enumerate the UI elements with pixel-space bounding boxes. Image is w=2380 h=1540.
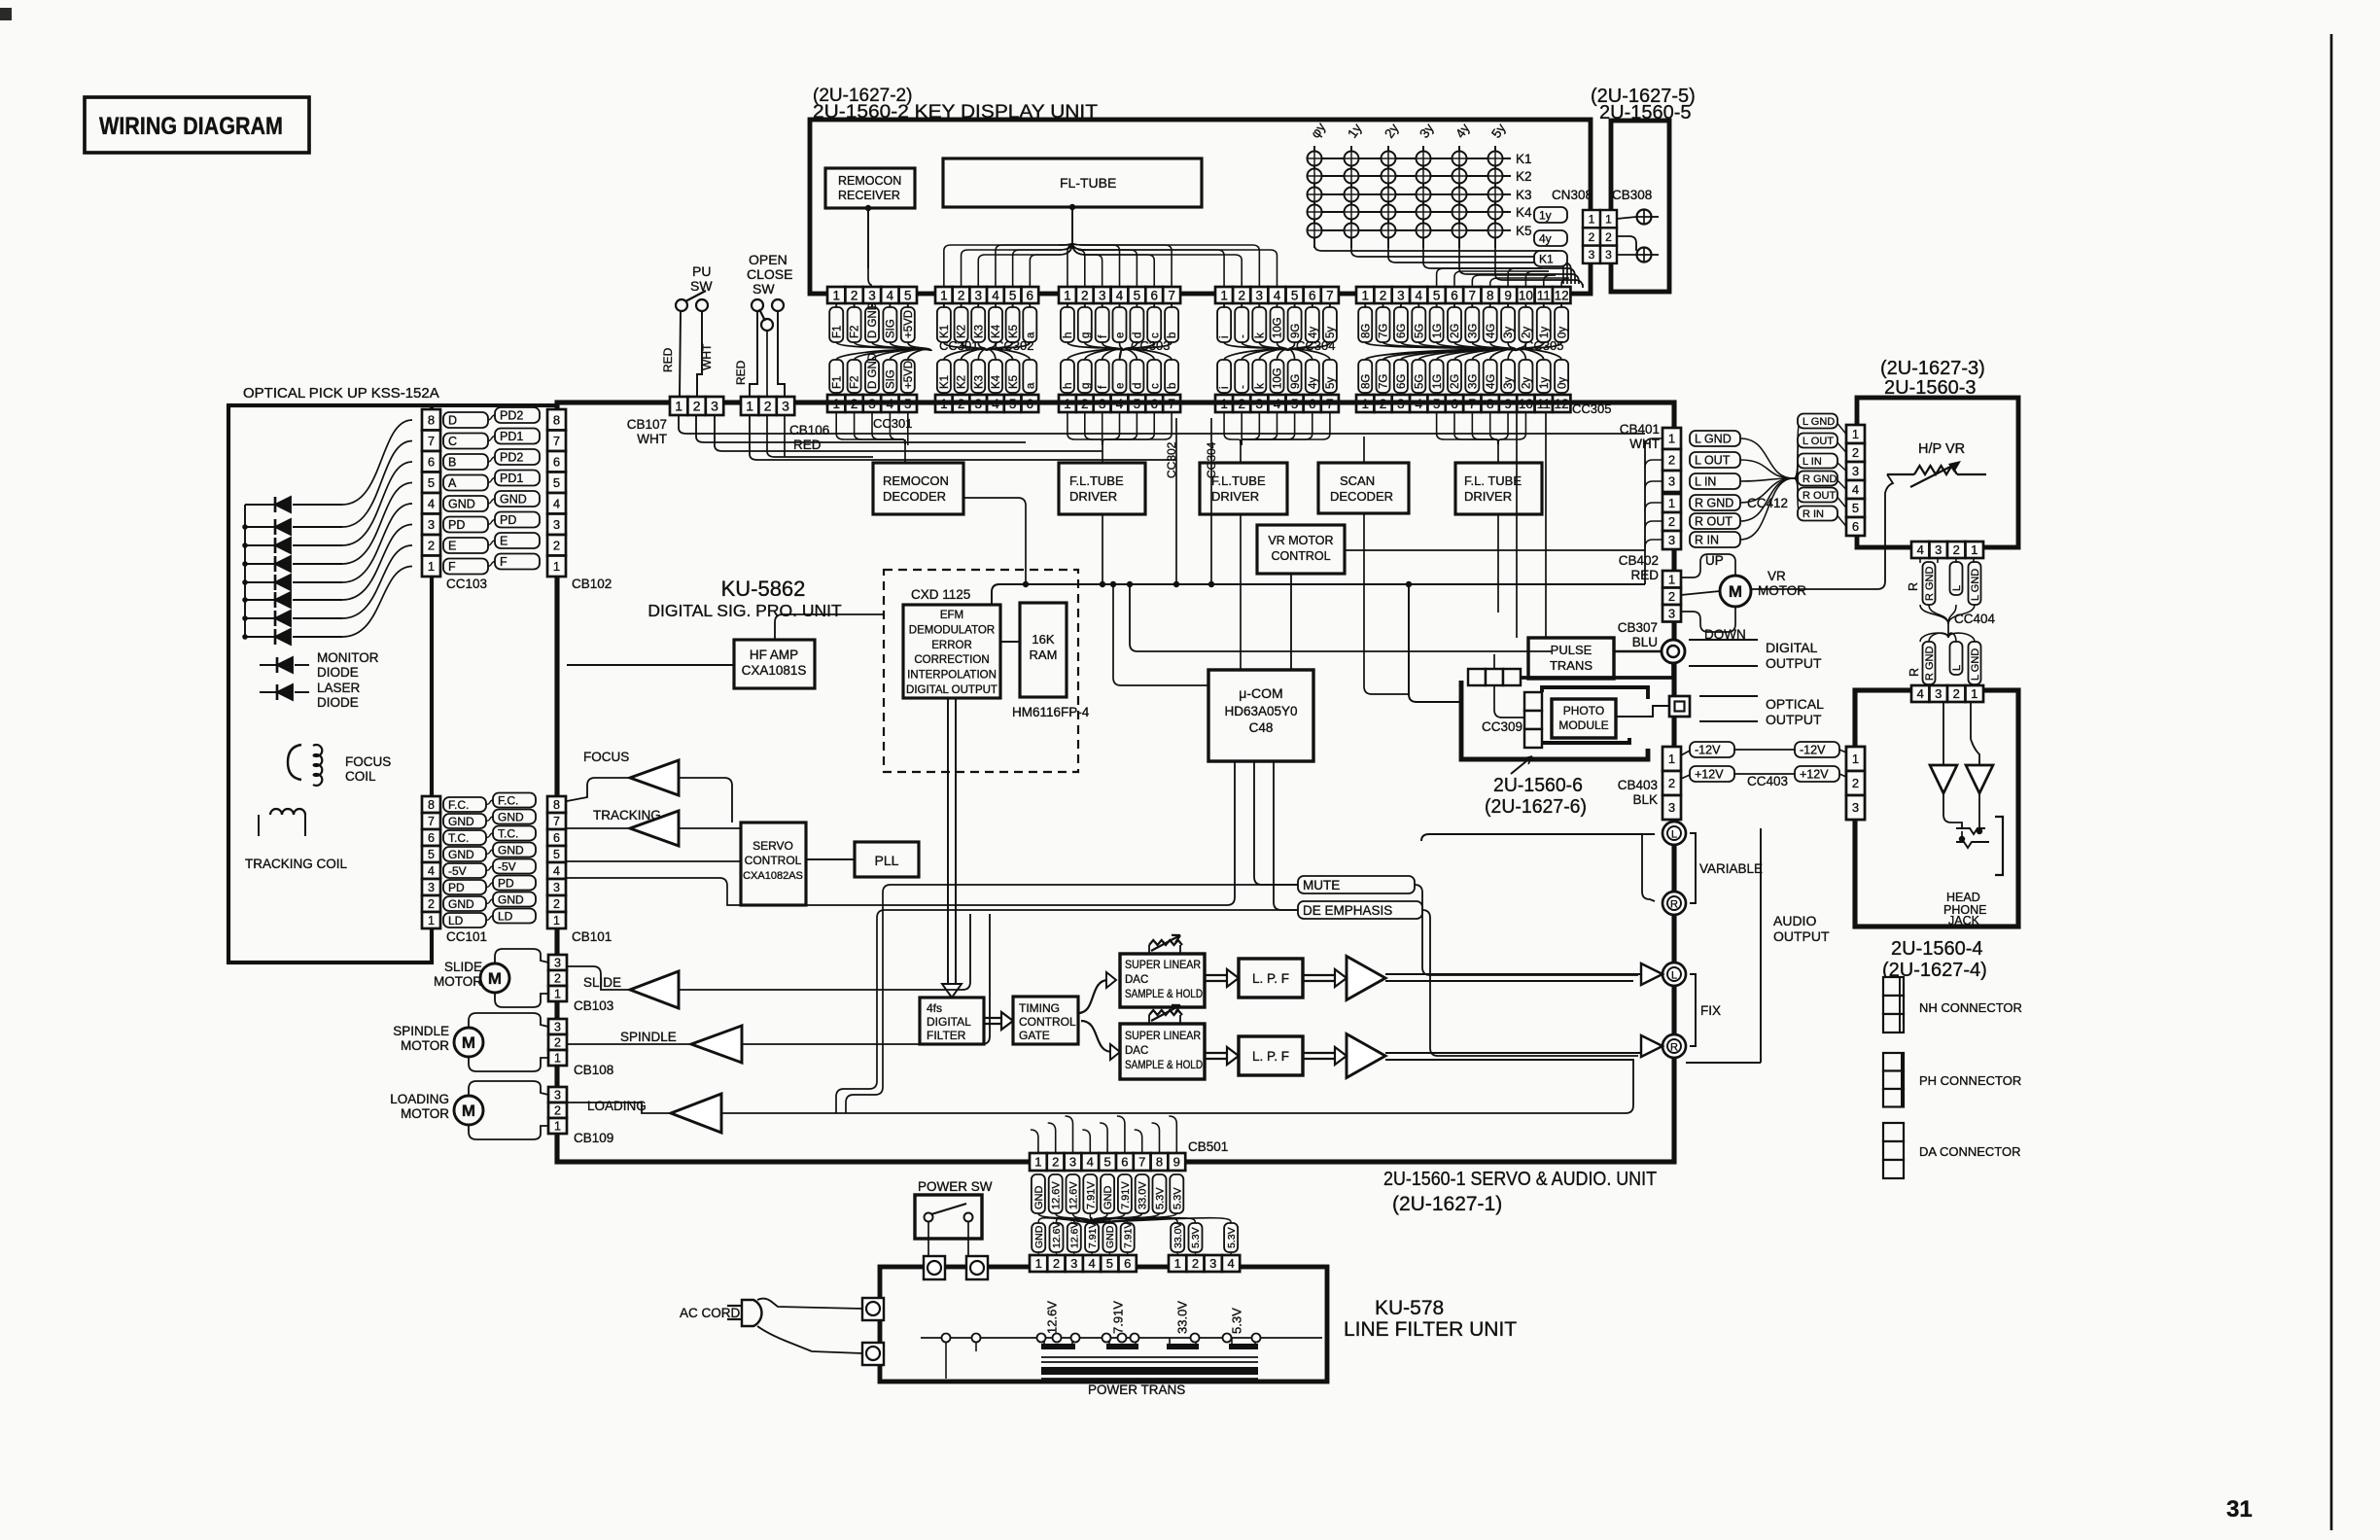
svg-text:2: 2 (1852, 776, 1859, 790)
svg-text:D GND: D GND (867, 353, 879, 389)
VR motor control box (1257, 525, 1345, 574)
wire PU SW to CB107 pin2 (697, 311, 702, 397)
lamp symbol 1 in 2U-1560-5 (1637, 210, 1652, 225)
wire driver3 down (1497, 514, 1499, 612)
connector CC404 lower strip 4321 (1911, 685, 1930, 702)
super linear DAC box top (1120, 954, 1205, 1007)
audio output bracket (1760, 828, 1762, 1063)
hollow arrow LPF to amp bottom (1303, 1052, 1335, 1054)
svg-text:3: 3 (553, 881, 560, 894)
trimmer symbol top DAC (1149, 940, 1182, 945)
svg-text:WHT: WHT (637, 432, 667, 446)
svg-text:7: 7 (1326, 288, 1334, 302)
svg-text:3: 3 (1209, 1256, 1216, 1271)
svg-text:8: 8 (553, 412, 560, 427)
svg-text:R: R (1670, 899, 1678, 911)
svg-text:10: 10 (1519, 288, 1533, 302)
svg-text:e: e (1115, 332, 1127, 338)
svg-text:RED: RED (661, 347, 675, 372)
wire driver2 down to uCOM (1240, 514, 1242, 670)
wire photo module to optical jack (1616, 706, 1669, 717)
svg-text:F1: F1 (831, 376, 843, 389)
scan edge line (2330, 34, 2333, 1530)
svg-text:5: 5 (1291, 288, 1299, 302)
scan decoder box (1318, 463, 1409, 513)
svg-text:(2U-1627-1): (2U-1627-1) (1392, 1193, 1502, 1215)
svg-text:OPTICAL PICK UP KSS-152A: OPTICAL PICK UP KSS-152A (243, 385, 439, 402)
svg-text:2: 2 (1052, 1155, 1059, 1170)
wire tracking amp to CB101 and servo control (567, 827, 630, 829)
wire bundle CC301 row1 to row2 with pin name labels (836, 342, 931, 360)
svg-text:h: h (1063, 332, 1074, 338)
svg-text:1G: 1G (1432, 324, 1444, 338)
svg-text:3: 3 (1935, 686, 1942, 701)
svg-text:4: 4 (1274, 288, 1281, 302)
wire EFM to RAM (1000, 641, 1020, 643)
svg-text:GND: GND (1102, 1186, 1114, 1210)
svg-text:5y: 5y (1325, 327, 1337, 338)
svg-text:GND: GND (448, 815, 474, 828)
wire CB101 to HF AMP (567, 664, 734, 666)
wire branch down to optical module (1409, 584, 1461, 702)
svg-text:3G: 3G (1468, 374, 1480, 389)
connector CB102 pins (547, 409, 566, 431)
amplifier triangle top (1347, 957, 1385, 1000)
svg-text:5G: 5G (1414, 324, 1425, 338)
amplifier triangle bottom (1347, 1034, 1385, 1078)
svg-text:LASER: LASER (317, 681, 361, 695)
svg-text:4: 4 (887, 288, 894, 302)
label 2U-1560-6 with arrow (1511, 756, 1532, 774)
svg-text:3: 3 (1852, 464, 1859, 478)
svg-text:9G: 9G (1290, 324, 1302, 338)
svg-text:SW: SW (752, 281, 775, 297)
svg-text:PHOTO: PHOTO (1563, 704, 1604, 717)
connector CC305 row1 pins (1356, 287, 1374, 303)
svg-text:-5V: -5V (448, 864, 467, 878)
wire amp bottom to fix R (1385, 1052, 1646, 1054)
power inlet contacts on filter box (924, 1256, 945, 1279)
svg-text:2: 2 (554, 1036, 561, 1050)
thick wires photo module loop (1542, 687, 1648, 699)
svg-text:-5V: -5V (498, 859, 516, 873)
wires CC404 strip stubs (1919, 558, 1921, 563)
wires CB402 to VR motor (1681, 554, 1735, 577)
F.L. TUBE DRIVER box 1 (1059, 463, 1145, 514)
key display unit board outline 2U-1560-2 (810, 120, 1591, 294)
svg-text:K2: K2 (957, 375, 968, 389)
svg-text:4: 4 (992, 288, 999, 302)
svg-text:GND: GND (448, 498, 475, 511)
wire fan CC305 to driver3 (1437, 412, 1498, 444)
wires loading motor to CB109 (469, 1081, 548, 1096)
svg-text:4G: 4G (1486, 374, 1497, 389)
svg-text:CB501: CB501 (1188, 1139, 1228, 1154)
connector CC404 upper strip 4321 (1911, 542, 1930, 558)
svg-text:OUTPUT: OUTPUT (1766, 655, 1822, 671)
svg-text:L IN: L IN (1802, 456, 1822, 468)
svg-text:6: 6 (1150, 288, 1158, 302)
svg-text:L. P. F: L. P. F (1252, 1049, 1289, 1064)
svg-text:1y: 1y (1539, 377, 1551, 389)
svg-text:1G: 1G (1432, 374, 1444, 389)
servo and audio unit board outline 2U-1560-1 (557, 402, 1674, 1162)
svg-text:6: 6 (553, 831, 560, 845)
svg-text:8: 8 (553, 798, 560, 812)
svg-text:REMOCON: REMOCON (883, 473, 949, 488)
svg-text:F.C.: F.C. (448, 798, 469, 812)
wires diodes to CC103 (342, 420, 412, 505)
svg-text:2: 2 (764, 399, 772, 414)
svg-text:2: 2 (1852, 445, 1859, 460)
wires CB401 to left bus (1645, 438, 1662, 446)
svg-text:SUPER LINEAR: SUPER LINEAR (1125, 960, 1201, 971)
svg-text:7.91V: 7.91V (1085, 1181, 1097, 1209)
svg-text:10G: 10G (1273, 317, 1284, 338)
svg-text:L GND: L GND (1695, 433, 1732, 446)
svg-text:2: 2 (553, 538, 560, 552)
FL-TUBE box (943, 158, 1202, 207)
svg-text:5.3V: 5.3V (1226, 1227, 1238, 1248)
svg-text:2: 2 (554, 972, 561, 986)
svg-text:CC412: CC412 (1747, 496, 1788, 510)
wire VR motor control right (1346, 549, 1645, 551)
svg-text:4: 4 (553, 496, 560, 510)
wire variable L from left (1421, 834, 1655, 841)
svg-text:2: 2 (1081, 288, 1089, 302)
svg-text:3: 3 (782, 399, 789, 414)
svg-text:12.6V: 12.6V (1068, 1181, 1080, 1209)
wire servo control to PLL (806, 858, 855, 860)
NH connector legend symbol (1883, 977, 1904, 996)
svg-text:K5: K5 (1516, 224, 1532, 238)
optical unit 2U-1560-6 thick outline (1461, 681, 1648, 759)
svg-text:6G: 6G (1396, 374, 1408, 389)
connector CC305 row2 pins (1356, 395, 1374, 412)
svg-text:5: 5 (904, 288, 912, 302)
connector CB501 pins (1030, 1153, 1047, 1171)
svg-text:SLIDE: SLIDE (583, 975, 621, 990)
svg-text:L. P. F: L. P. F (1252, 971, 1289, 986)
svg-text:E: E (448, 540, 456, 553)
svg-text:4y: 4y (1539, 231, 1552, 245)
svg-text:SAMPLE & HOLD: SAMPLE & HOLD (1125, 989, 1203, 1000)
wires slide motor to CB103 (495, 949, 548, 963)
svg-text:K3: K3 (973, 375, 985, 389)
svg-text:3: 3 (553, 517, 560, 532)
wire spindle long run (742, 914, 990, 1044)
svg-text:SERVO: SERVO (752, 839, 793, 853)
connector CB401 R pins (1662, 494, 1681, 512)
photo diode array (244, 505, 246, 637)
svg-text:SPINDLE: SPINDLE (393, 1024, 449, 1038)
connector CC302 row2 pins (935, 395, 953, 412)
svg-text:1: 1 (554, 1052, 561, 1066)
VR motor (1720, 576, 1751, 607)
svg-text:L IN: L IN (1695, 475, 1716, 489)
svg-text:POWER TRANS: POWER TRANS (1088, 1382, 1185, 1397)
wires uCOM left side (1113, 584, 1208, 685)
optical pick up board outline KSS-152A (228, 405, 432, 962)
svg-text:CN308: CN308 (1552, 188, 1592, 202)
svg-text:6: 6 (1852, 519, 1859, 534)
svg-text:3: 3 (554, 1089, 561, 1102)
svg-text:BLK: BLK (1632, 792, 1658, 807)
svg-text:CB106: CB106 (789, 423, 829, 437)
svg-text:2U-1560-2 KEY DISPLAY UNIT: 2U-1560-2 KEY DISPLAY UNIT (813, 102, 1098, 122)
svg-text:1: 1 (1971, 542, 1977, 557)
wire OPEN CLOSE SW to CB106 pin3 (778, 311, 785, 397)
power transformer taps (945, 1343, 947, 1352)
lozenge label 4y (1534, 230, 1567, 246)
micro computer box HD63A05Y0 (1208, 670, 1313, 761)
potentiometer H/P VR (1887, 473, 1914, 475)
svg-text:F.L.TUBE: F.L.TUBE (1211, 473, 1266, 488)
svg-text:K2: K2 (957, 325, 968, 338)
svg-text:D: D (448, 414, 457, 428)
svg-text:-12V: -12V (1695, 744, 1721, 757)
svg-text:R GND: R GND (1802, 473, 1837, 485)
svg-text:FL-TUBE: FL-TUBE (1060, 175, 1116, 191)
svg-text:DAC: DAC (1125, 1045, 1148, 1057)
svg-text:L: L (1951, 585, 1963, 591)
bracket VARIABLE (1690, 833, 1696, 903)
connector CB106 pins (741, 397, 758, 415)
svg-text:FIX: FIX (1700, 1003, 1721, 1018)
svg-text:POWER SW: POWER SW (918, 1179, 993, 1194)
4fs digital filter box (920, 997, 984, 1044)
svg-text:PH CONNECTOR: PH CONNECTOR (1919, 1073, 2021, 1088)
svg-text:INTERPOLATION: INTERPOLATION (907, 670, 997, 682)
svg-text:9: 9 (1504, 288, 1512, 302)
remocon decoder box (873, 463, 963, 514)
svg-text:3: 3 (868, 288, 876, 302)
svg-text:1: 1 (1064, 288, 1071, 302)
svg-text:a: a (1026, 332, 1037, 338)
svg-text:0y: 0y (1557, 327, 1568, 338)
svg-text:1: 1 (1034, 1155, 1041, 1170)
svg-text:d: d (1133, 383, 1144, 389)
svg-text:CB108: CB108 (574, 1063, 613, 1077)
svg-text:1: 1 (1668, 432, 1675, 446)
timing control gate box (1013, 997, 1078, 1044)
svg-text:1: 1 (554, 1120, 561, 1134)
pin labels power unit side (1030, 1255, 1047, 1272)
svg-text:LOADING: LOADING (390, 1092, 449, 1106)
svg-text:3: 3 (1070, 1256, 1077, 1271)
svg-text:2: 2 (553, 897, 560, 911)
svg-text:4: 4 (428, 496, 435, 510)
svg-text:CB103: CB103 (574, 998, 613, 1013)
svg-text:2: 2 (1380, 288, 1387, 302)
spindle amplifier triangle (691, 1026, 742, 1063)
svg-text:3: 3 (1256, 288, 1264, 302)
svg-text:5.3V: 5.3V (1190, 1227, 1202, 1248)
svg-text:M: M (462, 1102, 475, 1120)
svg-text:g: g (1080, 383, 1092, 389)
svg-text:2: 2 (1668, 589, 1675, 604)
bus line right side (1644, 440, 1646, 584)
svg-text:7.91V: 7.91V (1111, 1301, 1126, 1334)
svg-text:2U-1560-4: 2U-1560-4 (1891, 938, 1983, 960)
svg-text:6: 6 (553, 454, 560, 469)
svg-text:CB308: CB308 (1612, 188, 1652, 202)
svg-text:R IN: R IN (1695, 534, 1719, 547)
svg-text:PD: PD (448, 881, 465, 894)
connector CB103 (548, 955, 567, 970)
pin labels CB101 (493, 793, 536, 808)
wire PU SW to CB107 pin1 (680, 311, 681, 397)
svg-text:3: 3 (1099, 288, 1106, 302)
svg-text:MONITOR: MONITOR (317, 650, 379, 665)
svg-text:GND: GND (500, 493, 527, 507)
svg-text:7: 7 (428, 815, 435, 828)
svg-text:33.0V: 33.0V (1172, 1222, 1184, 1248)
svg-text:M: M (1729, 582, 1742, 601)
wire scan decoder down (1364, 513, 1409, 694)
wire slide long run (679, 914, 970, 990)
wire long run EFM top to right edge (992, 584, 1645, 605)
svg-text:g: g (1080, 332, 1092, 338)
svg-text:33.0V: 33.0V (1175, 1301, 1190, 1334)
svg-text:MOTOR: MOTOR (401, 1106, 449, 1121)
hollow arrow EFM to 4fs filter (947, 698, 949, 988)
svg-text:L GND: L GND (1970, 569, 1981, 601)
svg-text:5: 5 (1009, 288, 1017, 302)
wire bundle CC304 row1 to row2 with pin name labels (1224, 342, 1288, 360)
connector CC303 row1 pins (1059, 287, 1076, 303)
pin labels CB102 (495, 407, 540, 423)
svg-text:TRACKING: TRACKING (593, 808, 661, 822)
svg-text:b: b (1167, 383, 1178, 389)
svg-text:+5VD: +5VD (903, 361, 915, 389)
wire to CC309 (1494, 685, 1524, 717)
legend monitor diode (260, 664, 277, 666)
power switch box (915, 1195, 982, 1239)
hollow arrow DAC to LPF bottom (1205, 1052, 1227, 1054)
svg-text:1: 1 (1668, 496, 1675, 510)
connector CC303 row2 pins (1059, 395, 1076, 412)
svg-text:3: 3 (1668, 800, 1675, 815)
svg-text:CB401: CB401 (1620, 422, 1660, 437)
svg-text:MUTE: MUTE (1303, 878, 1340, 892)
PLL box (855, 842, 919, 877)
svg-text:a: a (1026, 382, 1037, 389)
svg-text:MOTOR: MOTOR (434, 974, 482, 989)
tracking coil symbol (270, 809, 282, 815)
wires CC404 merge (1920, 605, 1948, 624)
svg-text:CONTROL: CONTROL (1019, 1015, 1076, 1029)
svg-text:K4: K4 (991, 374, 1002, 389)
svg-text:OPTICAL: OPTICAL (1766, 696, 1824, 712)
svg-text:2U-1560-1 SERVO & AUDIO. UNI: 2U-1560-1 SERVO & AUDIO. UNIT (1383, 1169, 1657, 1190)
svg-text:4: 4 (1088, 1256, 1095, 1271)
svg-text:1y: 1y (1539, 327, 1551, 338)
svg-text:F2: F2 (850, 326, 861, 338)
svg-text:6: 6 (1027, 288, 1034, 302)
wire uCOM bottom left run (807, 761, 1235, 905)
svg-text:3: 3 (554, 1021, 561, 1034)
svg-text:CORRECTION: CORRECTION (914, 654, 989, 666)
svg-text:1: 1 (746, 399, 753, 414)
svg-text:CLOSE: CLOSE (747, 266, 792, 282)
svg-text:SUPER LINEAR: SUPER LINEAR (1125, 1031, 1201, 1042)
pulse trans box (1528, 638, 1614, 679)
focus coil symbol (288, 745, 301, 780)
svg-text:8G: 8G (1360, 324, 1372, 338)
wires CC103 to CB102 (488, 415, 495, 420)
svg-text:8: 8 (1487, 288, 1494, 302)
svg-text:2: 2 (1668, 514, 1675, 529)
svg-text:4: 4 (1917, 542, 1924, 557)
svg-text:2U-1560-5: 2U-1560-5 (1599, 102, 1692, 123)
svg-text:L: L (1671, 829, 1677, 841)
svg-text:4: 4 (1917, 686, 1924, 701)
svg-text:6: 6 (1451, 288, 1458, 302)
svg-text:GND: GND (498, 843, 524, 857)
svg-text:2: 2 (1668, 776, 1675, 790)
svg-text:6: 6 (1124, 1256, 1131, 1271)
wire braid CC305 to key matrix (1437, 268, 1542, 287)
connector CN308 pins (1583, 210, 1600, 227)
wire bundle CC305 row1 to row2 with pin name labels (1365, 342, 1517, 360)
wire CB109 to loading amp (567, 1102, 671, 1113)
svg-text:COIL: COIL (345, 769, 376, 784)
slide amplifier triangle (630, 971, 679, 1008)
svg-text:T.C.: T.C. (498, 826, 518, 840)
wire mute to fix L line (1415, 885, 1638, 975)
wires CC404 to amps (1942, 702, 1944, 765)
wire amp top to fix L (1385, 973, 1646, 975)
svg-text:4: 4 (428, 864, 435, 878)
svg-text:3y: 3y (1503, 327, 1515, 338)
svg-text:R GND: R GND (1695, 497, 1733, 510)
svg-text:WHT: WHT (700, 343, 714, 370)
key matrix switch circles (1308, 152, 1322, 166)
svg-text:K2: K2 (1516, 169, 1532, 184)
wire HF AMP up to EFM line (775, 614, 884, 640)
wires mute and de-emphasis to audio left (846, 885, 1298, 1113)
svg-text:2: 2 (1953, 542, 1960, 557)
pin labels CB401 L (1690, 431, 1740, 446)
svg-text:CC101: CC101 (446, 929, 487, 944)
svg-text:3G: 3G (1468, 324, 1480, 338)
connector on 2U-1560-4 power pins (1846, 747, 1865, 771)
svg-text:HF AMP: HF AMP (750, 647, 798, 662)
wire bundle CB501 waist (1038, 1213, 1091, 1223)
wires CC403 (1734, 749, 1795, 751)
svg-text:i: i (1219, 386, 1231, 389)
svg-text:12.6V: 12.6V (1051, 1181, 1063, 1209)
variable output jack L (1662, 822, 1686, 845)
board 2U-1560-3 outline (1857, 398, 2018, 547)
svg-text:2: 2 (1953, 686, 1960, 701)
svg-text:CB307: CB307 (1618, 620, 1658, 635)
svg-text:DIGITAL: DIGITAL (927, 1015, 971, 1029)
svg-text:1: 1 (1971, 686, 1977, 701)
svg-text:F2: F2 (850, 376, 861, 389)
svg-text:16K: 16K (1032, 632, 1054, 647)
svg-text:TRANS: TRANS (1550, 658, 1592, 673)
svg-text:SPINDLE: SPINDLE (620, 1030, 677, 1044)
svg-text:+12V: +12V (1800, 768, 1829, 782)
svg-text:GND: GND (498, 810, 524, 823)
title box WIRING DIAGRAM (85, 97, 309, 153)
svg-text:UP: UP (1705, 553, 1724, 568)
svg-text:3: 3 (1668, 533, 1675, 547)
svg-text:μ-COM: μ-COM (1239, 685, 1282, 701)
wire de-emphasis to fix R line (1422, 910, 1638, 1056)
